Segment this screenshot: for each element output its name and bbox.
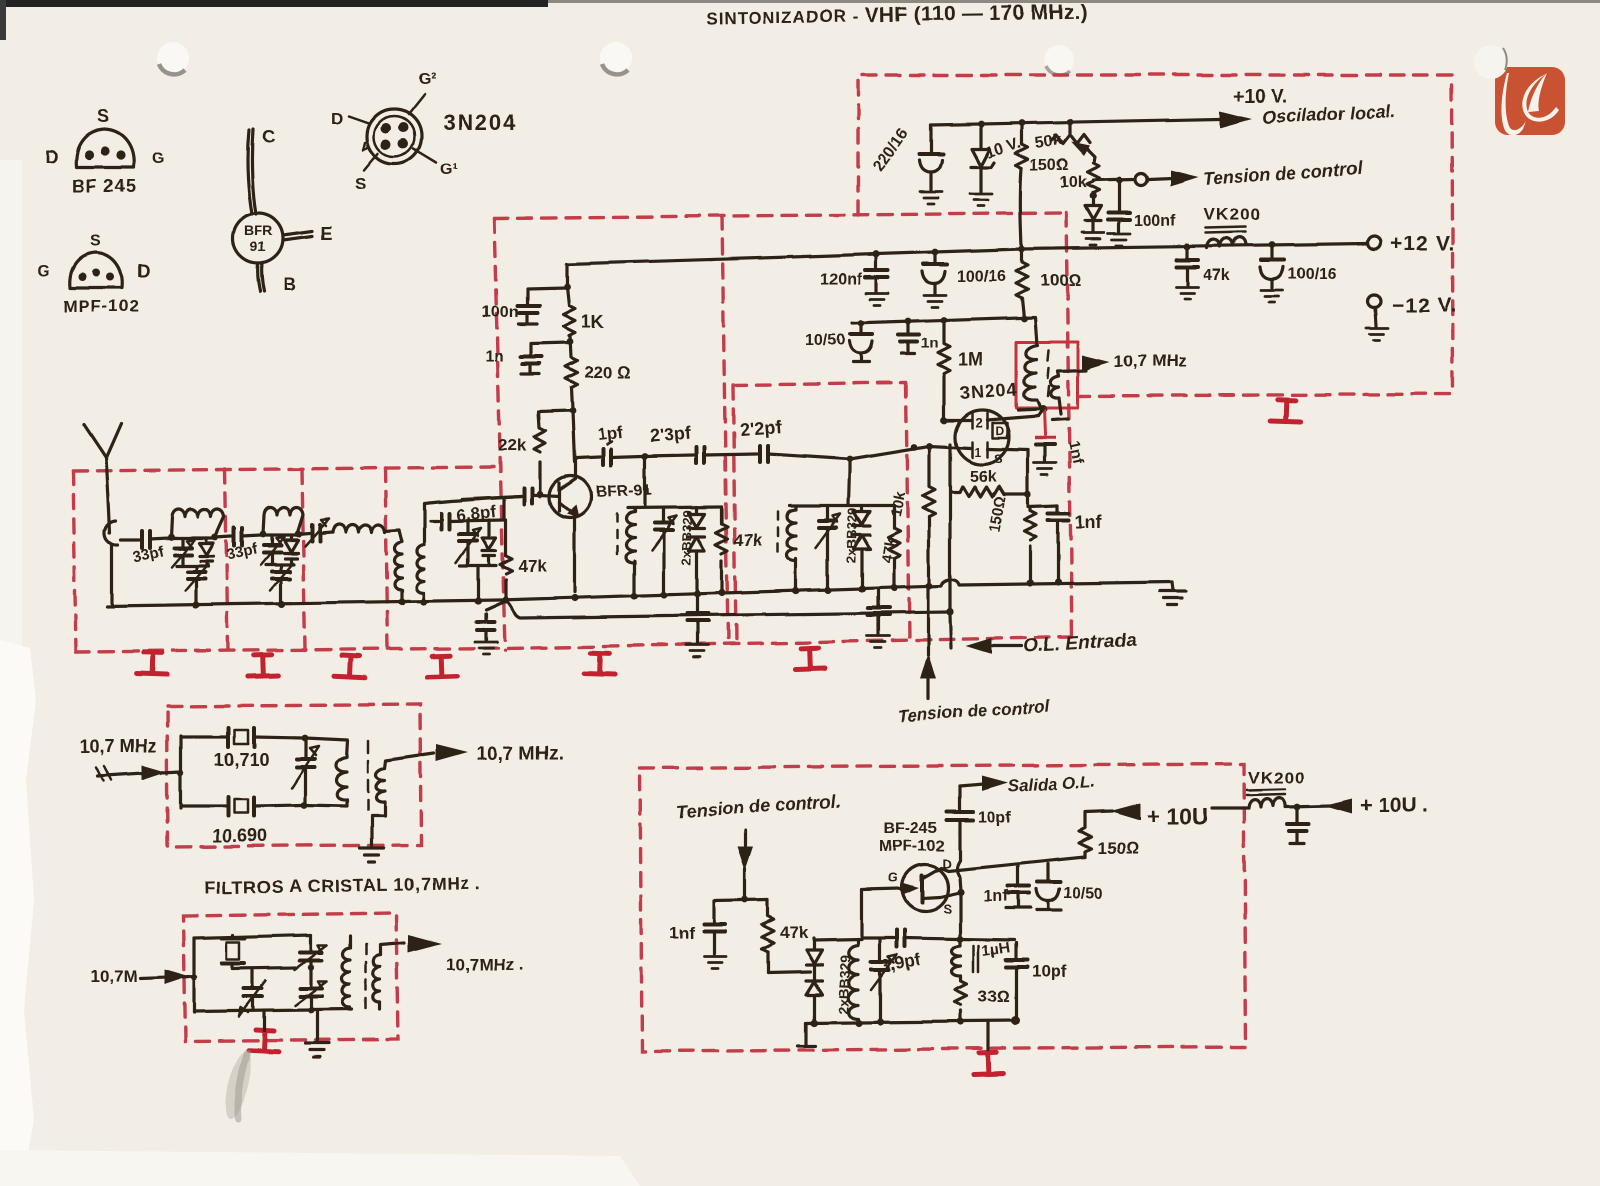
svg-text:G¹: G¹ xyxy=(440,161,458,178)
IF transformer 10.7MHz primary xyxy=(1024,345,1049,400)
svg-text:+ 10U .: + 10U . xyxy=(1360,794,1428,817)
svg-text:MPF-102: MPF-102 xyxy=(879,838,945,855)
inductor LO xyxy=(848,939,858,1022)
resistor 220R xyxy=(565,336,630,410)
svg-text:2xBB329: 2xBB329 xyxy=(844,508,861,563)
wire tap line xyxy=(430,519,438,522)
trimmer cap filter2 input xyxy=(239,968,266,1016)
capacitor VK200 bypass xyxy=(1287,807,1308,844)
svg-text:1K: 1K xyxy=(581,312,604,332)
pencil smudge xyxy=(220,1050,256,1121)
trimmer cap cell A xyxy=(171,538,194,567)
svg-text:S: S xyxy=(90,233,101,250)
arrow tension de control xyxy=(1149,178,1172,179)
svg-text:47k: 47k xyxy=(518,557,547,576)
capacitor 2'3pf xyxy=(645,423,757,463)
svg-text:+10 V.: +10 V. xyxy=(1233,87,1287,108)
svg-text:100Ω: 100Ω xyxy=(1040,271,1081,290)
transformer filter2 secondary xyxy=(373,943,404,1009)
resistor 33R xyxy=(955,976,1010,1022)
box C (2nd tuned circuit) xyxy=(733,383,909,644)
resistor 100R xyxy=(1016,249,1081,318)
svg-text:D: D xyxy=(995,424,1004,438)
wire top branch filter2 xyxy=(194,935,311,938)
trimmer cap cell B xyxy=(261,535,284,564)
transistor package MPF-102 xyxy=(38,233,150,316)
svg-text:G: G xyxy=(38,263,50,280)
svg-text:150Ω: 150Ω xyxy=(1097,839,1138,858)
wire bottom branch filter2 xyxy=(194,1009,352,1011)
wire drain to 150R xyxy=(941,857,1085,871)
capacitor 1nf LO xyxy=(669,901,725,954)
capacitor feedthrough c xyxy=(868,589,889,634)
ground xyxy=(920,192,942,204)
svg-text:33Ω: 33Ω xyxy=(978,987,1010,1006)
resistor 47k (2nd tank) xyxy=(878,508,900,589)
svg-text:1n: 1n xyxy=(921,335,939,352)
svg-text:3N204: 3N204 xyxy=(959,379,1018,403)
svg-text:1M: 1M xyxy=(958,350,983,370)
transformer filter2 primary xyxy=(343,936,367,1008)
capacitor 2'2pf xyxy=(739,417,848,462)
svg-text:2'2pf: 2'2pf xyxy=(739,417,783,440)
svg-text:10,7 MHz: 10,7 MHz xyxy=(80,736,157,756)
svg-text:D: D xyxy=(137,261,150,281)
arrow +10V right xyxy=(1324,799,1352,814)
wire +10V bus xyxy=(931,119,1220,125)
capacitor 100/16 xyxy=(922,252,1006,293)
capacitor 3,9pf xyxy=(862,930,958,976)
ground xyxy=(970,194,992,206)
inductor tank1 xyxy=(617,508,635,595)
resistor 10k xyxy=(887,446,935,584)
wire source chain xyxy=(959,892,962,939)
choke VK200 on rail xyxy=(1204,205,1261,248)
svg-text:10pf: 10pf xyxy=(978,809,1012,826)
wire red ground lead filter2 xyxy=(262,1010,265,1030)
svg-text:120nf: 120nf xyxy=(820,271,862,288)
punch hole 3 xyxy=(1044,45,1074,75)
svg-text:E: E xyxy=(320,224,332,244)
capacitor 6,8pf xyxy=(455,488,559,525)
ground filter1 xyxy=(360,848,384,862)
inductor series xyxy=(333,525,399,533)
svg-text:10,7MHz .: 10,7MHz . xyxy=(446,955,523,974)
choke VK200 LO xyxy=(1247,768,1305,808)
svg-text:1nf: 1nf xyxy=(1075,512,1103,532)
svg-text:100/16: 100/16 xyxy=(957,268,1006,285)
svg-text:10,7M: 10,7M xyxy=(90,967,137,986)
node dot xyxy=(569,408,576,415)
trimmer cap filter2 upper xyxy=(295,935,327,969)
tank cell B : inductor xyxy=(263,508,303,538)
svg-text:1nf: 1nf xyxy=(669,923,695,942)
wire drain feed node line xyxy=(852,317,1037,345)
wire LO tank top rail xyxy=(814,939,862,940)
red ground under LO box xyxy=(973,1052,1004,1074)
svg-text:220 Ω: 220 Ω xyxy=(584,363,630,382)
wire mixer dc return vertical xyxy=(950,444,951,648)
arrow 10,7MHz out xyxy=(1082,355,1110,371)
capacitor 33pf b xyxy=(215,528,261,563)
trimmer cap to ground cell B xyxy=(266,563,294,603)
capacitor 10/50 xyxy=(805,323,872,362)
varactor 2xBB329 tank2 xyxy=(844,506,870,590)
output arrow 10,7MHz xyxy=(436,744,468,761)
transistor BF245 / MPF-102 oscillator xyxy=(879,820,958,916)
transformer input secondary xyxy=(417,496,522,602)
local oscillator box xyxy=(640,764,1246,1051)
box D dividers xyxy=(225,469,228,650)
svg-text:+12 V.: +12 V. xyxy=(1390,232,1455,255)
resistor 150R LO xyxy=(1079,826,1138,858)
ground xyxy=(867,636,889,648)
svg-text:S: S xyxy=(943,901,952,916)
ground xyxy=(1034,463,1056,475)
logo (orange square with white swoosh) xyxy=(1474,45,1565,135)
transformer filter1 primary xyxy=(305,738,368,810)
varactor 2xBB329 LO xyxy=(806,938,853,1022)
svg-text:BFR: BFR xyxy=(244,222,273,238)
svg-text:BF-245: BF-245 xyxy=(884,820,937,837)
capacitor feedthrough a xyxy=(477,601,506,640)
wire top branch xyxy=(181,735,226,738)
svg-text:150Ω: 150Ω xyxy=(1030,157,1069,174)
svg-text:D: D xyxy=(45,147,58,167)
wire bias node xyxy=(714,900,768,901)
capacitor 1n xyxy=(485,343,570,374)
wire gate lead xyxy=(862,889,901,939)
svg-text:S: S xyxy=(994,451,1003,466)
crystal filter 1 box xyxy=(167,704,421,847)
transistor package BF245 xyxy=(45,106,164,196)
wire input riser xyxy=(179,736,182,808)
svg-text:B: B xyxy=(283,274,296,294)
wire secondary return + red 1nf cap xyxy=(1052,398,1068,420)
svg-text:22k: 22k xyxy=(498,436,527,455)
zener diode 10V xyxy=(971,124,1023,192)
wire bus to red ground xyxy=(986,1022,989,1050)
output arrow 10,7MHz filter2 xyxy=(408,935,442,953)
wire wiper tap to terminal xyxy=(1093,179,1133,180)
wire IF output xyxy=(1058,370,1086,376)
crystal filter 2 box xyxy=(183,913,398,1041)
capacitor 1nf source xyxy=(1048,505,1103,581)
punch hole 1 xyxy=(157,42,189,74)
transistor package 3N204 xyxy=(331,71,518,193)
svg-text:91: 91 xyxy=(250,238,266,254)
trimmer cap series xyxy=(298,519,333,546)
resistor 47k stage3 xyxy=(500,520,547,600)
trimmer cap filter1 xyxy=(292,738,319,804)
wire varactor bias xyxy=(768,972,810,973)
svg-text:S: S xyxy=(98,106,110,126)
terminal -12V xyxy=(1368,295,1381,308)
ground xyxy=(1108,234,1130,246)
resistor 56k xyxy=(950,468,1032,498)
wire main ground bus with hop xyxy=(107,579,1172,606)
svg-text:56k: 56k xyxy=(970,468,997,485)
ground xyxy=(866,293,888,305)
svg-text:100n: 100n xyxy=(482,304,518,321)
svg-text:D: D xyxy=(331,109,343,128)
wire drain vertical xyxy=(957,821,961,891)
crystal filter2 xyxy=(222,935,296,968)
resistor 22k xyxy=(498,411,572,493)
resistor 47k tank1 xyxy=(716,507,763,593)
mosfet 3N204 mixer xyxy=(955,379,1038,466)
wire stage3 foot xyxy=(460,566,496,601)
arrow control voltage down xyxy=(743,830,746,845)
wire riser filter2 xyxy=(192,938,195,1012)
red ground under IF amp box xyxy=(585,652,616,674)
svg-text:10.690: 10.690 xyxy=(212,826,267,846)
capacitor 47k xyxy=(1176,247,1230,285)
transistor BFR-91 xyxy=(549,462,652,592)
box B outline (IF amplifier band) xyxy=(494,213,1066,218)
svg-text:100/16: 100/16 xyxy=(1288,266,1337,283)
capacitor C 220/16 xyxy=(870,125,943,190)
trimmer cap stage3 xyxy=(456,521,481,566)
varactor cell A xyxy=(199,538,213,566)
wire base line from tank to 6,8pf xyxy=(502,498,505,520)
capacitor 1n xyxy=(898,321,939,354)
svg-text:100nf: 100nf xyxy=(1134,213,1176,230)
capacitor feedthrough b xyxy=(687,594,708,643)
svg-text:10,7 MHz: 10,7 MHz xyxy=(1114,352,1187,371)
red ground under box A xyxy=(1271,399,1302,421)
svg-text:S: S xyxy=(355,174,366,193)
trimmer cap LO xyxy=(871,939,897,1022)
red ground under crystal filter 2 xyxy=(248,1029,279,1052)
wire lower bypass line xyxy=(506,600,950,618)
svg-text:C: C xyxy=(262,127,275,147)
capacitor 100/16 b xyxy=(1260,245,1337,288)
svg-text:10k: 10k xyxy=(1060,174,1087,191)
svg-text:10,710: 10,710 xyxy=(214,750,269,770)
svg-text:10/50: 10/50 xyxy=(805,332,845,349)
wire black ground lead filter2 xyxy=(315,1010,318,1041)
ground xyxy=(1366,328,1388,340)
svg-text:10,7 MHz.: 10,7 MHz. xyxy=(477,744,564,765)
capacitor 100n xyxy=(482,288,567,324)
svg-text:−12 V.: −12 V. xyxy=(1392,294,1457,317)
varactor 2xBB329 tank1 xyxy=(679,507,705,595)
node dot xyxy=(847,456,854,463)
capacitor 10pf LO out xyxy=(1006,943,1066,1021)
wire tank1 drop xyxy=(643,456,646,507)
svg-text:10pf: 10pf xyxy=(1031,962,1066,981)
arrow +10V oscilador xyxy=(1220,111,1252,128)
ground xyxy=(704,956,726,968)
svg-text:G: G xyxy=(888,870,898,885)
capacitor 10/50 drain xyxy=(1036,864,1103,910)
capacitor 120nf xyxy=(820,254,888,291)
potentiometer 50k xyxy=(1034,122,1095,163)
transformer filter1 secondary xyxy=(372,753,434,845)
varactor stage3 xyxy=(482,520,496,566)
svg-text:VK200: VK200 xyxy=(1248,768,1305,787)
inductor tank2 xyxy=(778,506,796,591)
ground xyxy=(1082,233,1104,245)
svg-text:2xBB329: 2xBB329 xyxy=(679,510,696,565)
resistor 1K xyxy=(563,287,604,336)
wire collector to 1pf xyxy=(572,411,600,462)
wire O.L. entrada stub xyxy=(992,644,1022,647)
capacitor 10pf salida xyxy=(947,786,1012,826)
wire source lead xyxy=(1026,450,1029,494)
node dot xyxy=(642,453,649,460)
tank cell A : inductor xyxy=(171,510,224,541)
box A outline (oscillator/supply box top right) xyxy=(858,75,1453,396)
varactor cell B xyxy=(284,535,298,564)
svg-text:47k: 47k xyxy=(1203,267,1230,284)
bus junction dots xyxy=(192,601,199,608)
svg-text:47k: 47k xyxy=(734,531,763,550)
resistor 150R source xyxy=(986,495,1036,581)
wire tank2 drop xyxy=(849,459,850,505)
wire tension de control drop xyxy=(926,586,929,699)
wire input xyxy=(121,538,139,541)
node collector supply xyxy=(564,284,571,291)
bus end ground xyxy=(1172,582,1173,590)
wire +10V feed xyxy=(1085,811,1112,826)
antenna xyxy=(84,424,121,533)
trimmer cap filter2 lower xyxy=(295,960,327,1013)
resistor 1M xyxy=(938,320,983,420)
punch hole 2 xyxy=(600,42,632,74)
inductor 1uH xyxy=(952,939,1011,976)
wire G1 signal input xyxy=(850,446,970,459)
ground xyxy=(686,645,708,657)
svg-text:1nf: 1nf xyxy=(984,888,1009,905)
red ground symbols under antenna filter xyxy=(137,652,168,674)
box B divider xyxy=(722,216,728,644)
crystal 10.690 xyxy=(212,797,303,846)
ground xyxy=(924,295,946,307)
wire drain to IF transformer xyxy=(1038,409,1043,416)
terminal circle xyxy=(1135,173,1147,185)
capacitor 100nf xyxy=(1108,180,1176,232)
trimmer cap tank1 xyxy=(652,508,677,595)
wire G2 bias entry xyxy=(944,418,970,421)
trimmer cap to ground cell A xyxy=(176,564,208,604)
box D (antenna filter) outline xyxy=(73,467,494,471)
capacitor 1pf xyxy=(596,422,642,465)
capacitor 1nf (red ink) xyxy=(1035,438,1086,466)
wire LO bottom bus xyxy=(806,1021,1016,1023)
wire +12V rail xyxy=(567,244,1367,264)
ground xyxy=(1176,287,1198,299)
arrow salida O.L. xyxy=(960,784,984,786)
resistor 150R xyxy=(1016,123,1069,247)
ground xyxy=(475,642,497,654)
node dot xyxy=(567,339,574,346)
IF transformer secondary xyxy=(1051,376,1059,398)
node dots on +10V bus xyxy=(978,121,985,128)
svg-text:BF 245: BF 245 xyxy=(72,176,137,196)
scanner edge top xyxy=(0,0,548,7)
ground xyxy=(1261,290,1283,302)
svg-text:3N204: 3N204 xyxy=(443,110,518,135)
connector jack xyxy=(105,521,118,604)
svg-text:2'3pf: 2'3pf xyxy=(649,423,693,446)
svg-text:+ 10U: + 10U xyxy=(1146,803,1208,829)
trimmer cap tank2 xyxy=(816,506,841,591)
terminal +12V xyxy=(1368,237,1381,250)
capacitor 1nf drain xyxy=(984,866,1030,908)
svg-text:G: G xyxy=(152,150,164,167)
svg-text:VK200: VK200 xyxy=(1204,205,1261,224)
torn paper edge bottom-left xyxy=(0,640,36,1186)
svg-text:1: 1 xyxy=(974,445,981,459)
svg-text:2: 2 xyxy=(975,415,982,430)
capacitor tap xyxy=(441,513,504,529)
potentiometer 10k xyxy=(1060,163,1099,205)
capacitor 33pf a xyxy=(131,531,169,566)
diode to ground xyxy=(1085,206,1101,231)
crystal 10,710 xyxy=(214,728,303,770)
svg-text:1n: 1n xyxy=(485,348,504,365)
wire source network bracket xyxy=(1028,494,1058,506)
transistor package BFR91 (stick) xyxy=(233,127,332,294)
transformer input primary xyxy=(395,530,403,602)
IF transformer red solid box xyxy=(1016,342,1078,408)
svg-text:MPF-102: MPF-102 xyxy=(63,297,140,316)
wire bottom branch xyxy=(181,804,226,807)
svg-text:47k: 47k xyxy=(780,923,809,942)
svg-text:10/50: 10/50 xyxy=(1063,885,1103,902)
wire bus to ground left xyxy=(798,1023,815,1046)
svg-text:G²: G² xyxy=(418,71,436,88)
resistor 47k LO xyxy=(762,900,809,973)
